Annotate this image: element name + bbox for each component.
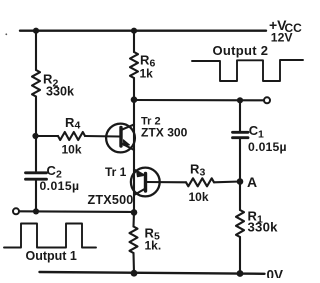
svg-text:10k: 10k (189, 190, 209, 204)
svg-text:1: 1 (258, 129, 264, 141)
transistor Tr2 collector lead (121, 125, 134, 131)
transistor Tr1 emitter arrow (137, 171, 143, 176)
resistor R6 (130, 52, 138, 78)
label R3 10k (189, 161, 209, 204)
svg-text:0.015µ: 0.015µ (40, 179, 80, 193)
svg-text:R: R (65, 115, 75, 130)
transistor Tr2 emitter arrow (123, 140, 129, 146)
waveform output1 (4, 224, 96, 248)
svg-text:10k: 10k (62, 143, 82, 157)
svg-text:R: R (190, 161, 200, 176)
scan speck (5, 33, 7, 35)
node junction R5 bottom (131, 270, 138, 277)
svg-text:0V: 0V (267, 268, 284, 278)
svg-text:1k: 1k (140, 67, 154, 81)
wire left branch upper (35, 31, 37, 70)
svg-text:C: C (47, 163, 57, 178)
label R6 1k (140, 52, 156, 80)
wire +Vcc top rail (20, 30, 266, 32)
transistor Tr1 collector lead (134, 189, 146, 196)
svg-text:Tr 1: Tr 1 (105, 165, 127, 179)
label Tr1 ZTX500 (88, 165, 134, 207)
capacitor C2 (26, 173, 47, 179)
transistor Tr1 base bar (144, 174, 147, 192)
svg-text:ZTX500: ZTX500 (88, 193, 134, 207)
wire R5 to 0V rail (132, 253, 135, 273)
svg-text:A: A (247, 174, 257, 190)
label Tr2 ZTX300 (141, 116, 188, 140)
wire R3 to node A (214, 180, 240, 183)
svg-text:Output 2: Output 2 (213, 43, 269, 58)
terminal output2 open circle (264, 97, 270, 103)
transistor Tr2 circle (106, 124, 135, 153)
label +Vcc 12V (269, 17, 302, 45)
node junction output2 (131, 96, 138, 103)
label R2 330k (43, 72, 75, 99)
wire 0V bottom rail (40, 272, 265, 274)
transistor Tr1 emitter lead (134, 170, 146, 177)
node junction C2 bottom (33, 208, 39, 214)
wire node to R4 (36, 135, 58, 137)
node junction left rail (33, 28, 39, 34)
resistor R4 (58, 132, 85, 140)
label C2 0.015u (40, 163, 80, 193)
wire R1 to 0V rail (239, 237, 241, 274)
resistor R3 (186, 178, 214, 186)
wire output1 (19, 210, 134, 213)
wire R2 to C2 node (35, 97, 37, 172)
wire Tr1 collector to R5 (132, 212, 135, 227)
resistor R2 (32, 70, 40, 97)
node junction output1/Tr1 collector (131, 209, 138, 216)
svg-text:12V: 12V (271, 30, 294, 44)
svg-text:1k.: 1k. (145, 239, 162, 253)
terminal output1 open circle (13, 208, 19, 214)
node junction C2/R4 (32, 133, 38, 139)
node junction C1 top (237, 97, 243, 103)
svg-text:4: 4 (75, 119, 81, 131)
waveform output2 (192, 60, 303, 81)
wire Tr2 collector-emitter vertical (133, 100, 135, 212)
transistor Tr2 base bar (119, 128, 122, 147)
label R1 330k (248, 208, 279, 234)
node junction R6 top (131, 28, 137, 34)
wire Tr1 base to R3 (146, 181, 186, 183)
svg-text:ZTX 300: ZTX 300 (141, 126, 188, 140)
svg-text:R: R (140, 52, 150, 67)
wire R6 to output2 node (133, 78, 135, 100)
capacitor C1 (233, 132, 249, 137)
svg-text:3: 3 (200, 167, 206, 179)
label R5 1k (145, 225, 162, 252)
label R4 10k (62, 115, 82, 157)
wire rail to R6 (133, 31, 135, 52)
node A junction (237, 178, 244, 185)
resistor R1 (236, 210, 244, 237)
wire C1 to node A (239, 138, 241, 210)
svg-text:Output 1: Output 1 (26, 249, 77, 263)
wire C1 top lead (239, 100, 241, 132)
wire C2 to output1 node (35, 179, 37, 211)
label C1 0.015u (248, 123, 287, 154)
svg-text:330k: 330k (248, 220, 279, 235)
wire R4 to Tr2 base (85, 135, 120, 138)
resistor R5 (130, 227, 138, 254)
svg-text:0.015µ: 0.015µ (248, 140, 287, 154)
node junction R1 bottom (237, 270, 244, 277)
transistor Tr2 emitter lead (121, 143, 134, 150)
svg-text:330k: 330k (46, 85, 75, 99)
transistor Tr1 circle (131, 168, 160, 197)
wire output2 horizontal (134, 99, 264, 101)
